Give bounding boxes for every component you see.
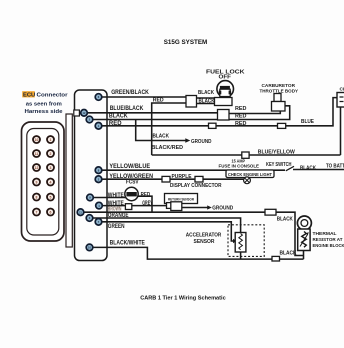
wire RED pin4 to choke (BLUE at right)	[99, 98, 338, 126]
svg-text:3: 3	[50, 166, 52, 170]
ground arrow	[185, 138, 190, 142]
inline connector under FCSV	[125, 204, 131, 210]
check engine light box	[226, 170, 274, 178]
svg-text:5: 5	[50, 195, 52, 199]
lamp symbol	[244, 177, 251, 184]
svg-text:CARBURETOR: CARBURETOR	[262, 83, 296, 89]
svg-text:BLACK: BLACK	[109, 114, 128, 120]
svg-text:RED: RED	[141, 192, 151, 198]
wire YELLOW/GREEN pin6 / PURPLE to check engine light	[99, 178, 244, 180]
svg-text:RED: RED	[235, 121, 247, 127]
thermal resistor at engine block	[297, 216, 344, 259]
svg-text:BLUE/YELLOW: BLUE/YELLOW	[258, 150, 296, 156]
wire BROWN pin9 to thermal resistor	[81, 212, 304, 255]
pin 5	[86, 116, 93, 123]
wire YELLOW/BLUE pin5 to key switch	[99, 169, 286, 171]
inline connector on red/blue wire	[278, 123, 286, 128]
inline connector	[265, 209, 276, 215]
svg-text:RETURN SENSOR: RETURN SENSOR	[168, 197, 194, 201]
pin 7	[95, 219, 102, 226]
15 amp fuse	[242, 152, 249, 158]
svg-text:BLACK/RED: BLACK/RED	[152, 145, 184, 151]
svg-text:S15G SYSTEM: S15G SYSTEM	[164, 39, 208, 46]
black wires to fuel lock	[197, 97, 215, 99]
plug connector	[167, 203, 172, 209]
svg-text:SENSOR: SENSOR	[194, 239, 215, 245]
svg-text:GROUND: GROUND	[191, 139, 212, 145]
svg-text:CARB 1 Tier 1 Wiring Schematic: CARB 1 Tier 1 Wiring Schematic	[140, 296, 226, 302]
FCSV solenoid	[125, 180, 150, 201]
ground arrow	[207, 205, 212, 209]
wire GREEN pin11 to pot wiper	[99, 222, 234, 241]
svg-text:RED: RED	[153, 98, 164, 104]
svg-text:YELLOW/BLUE: YELLOW/BLUE	[109, 164, 150, 170]
svg-text:BLACK/WHITE: BLACK/WHITE	[110, 241, 145, 247]
choke bottom feed	[340, 107, 342, 155]
svg-text:BLACK: BLACK	[199, 99, 215, 105]
svg-text:10: 10	[35, 138, 39, 142]
wire BLUE/BLACK pin2	[77, 112, 218, 114]
svg-text:4: 4	[50, 180, 52, 184]
svg-text:ACCELERATOR: ACCELERATOR	[186, 232, 222, 238]
svg-text:DISPLAY CONNECTOR: DISPLAY CONNECTOR	[170, 183, 222, 189]
svg-text:7: 7	[36, 210, 38, 214]
svg-text:1: 1	[50, 138, 52, 142]
wire WHITE/GREY pin8	[99, 205, 167, 207]
svg-text:OFF: OFF	[219, 75, 232, 81]
pin 4	[96, 202, 103, 209]
dashed box	[228, 225, 264, 257]
pin 10	[86, 244, 93, 251]
svg-text:12: 12	[35, 166, 39, 170]
inline connector on red wire	[209, 123, 217, 128]
svg-text:THERMAL: THERMAL	[313, 231, 337, 237]
svg-text:GREY: GREY	[142, 201, 152, 207]
svg-text:BLACK: BLACK	[277, 216, 293, 222]
black branch to ground	[136, 120, 186, 141]
svg-text:ENGINE BLOCK: ENGINE BLOCK	[313, 243, 344, 249]
svg-text:KEY SWITCH: KEY SWITCH	[266, 162, 292, 168]
red feed stub + vertical to fuse wire	[152, 103, 186, 155]
svg-text:GROUND: GROUND	[212, 206, 233, 212]
svg-text:RED: RED	[235, 106, 247, 112]
svg-text:6: 6	[50, 210, 52, 214]
connector flange strip	[66, 114, 72, 247]
choke component (clipped at right edge)	[337, 87, 344, 107]
svg-text:CH: CH	[340, 87, 344, 93]
svg-text:RED: RED	[109, 121, 122, 127]
wire to ground	[182, 207, 208, 209]
svg-text:as seen from: as seen from	[26, 101, 62, 107]
FCSV red return	[138, 196, 152, 212]
svg-text:FCSV: FCSV	[126, 180, 139, 186]
svg-text:BLACK: BLACK	[300, 165, 316, 171]
svg-text:9: 9	[36, 180, 38, 184]
blue/black continue to throttle body	[229, 111, 280, 114]
inline connector box1	[186, 96, 197, 108]
svg-text:8: 8	[36, 195, 38, 199]
svg-text:11: 11	[35, 152, 39, 156]
svg-text:GREEN: GREEN	[108, 224, 125, 230]
ECU connector housing (as seen from harness side)	[22, 122, 65, 241]
svg-text:BLACK: BLACK	[198, 90, 214, 96]
inline connector	[272, 256, 280, 261]
ECU schematic body box	[75, 90, 108, 261]
svg-text:FUSE IN CONSOLE: FUSE IN CONSOLE	[219, 163, 260, 169]
svg-text:ECU: ECU	[23, 93, 35, 99]
svg-text:BROWN: BROWN	[108, 207, 122, 213]
svg-text:ORANGE: ORANGE	[108, 213, 129, 219]
wiper arrow	[233, 239, 237, 243]
svg-text:2: 2	[50, 152, 52, 156]
wire WHITE pin7 to FCSV	[90, 197, 127, 199]
svg-text:WHITE: WHITE	[108, 193, 124, 199]
svg-text:RED: RED	[235, 114, 247, 120]
inline connector box2 on blue/black wire	[218, 110, 230, 121]
pin 12	[81, 110, 88, 117]
svg-text:GREEN/BLACK: GREEN/BLACK	[111, 90, 149, 96]
carburetor throttle body	[260, 83, 299, 111]
pin 1	[95, 123, 102, 130]
svg-text:PURPLE: PURPLE	[172, 174, 192, 180]
svg-text:CHECK ENGINE LIGHT: CHECK ENGINE LIGHT	[228, 172, 272, 178]
wire GREEN/BLACK pin1	[99, 96, 187, 98]
svg-text:BLACK: BLACK	[153, 134, 170, 140]
svg-text:BLUE/BLACK: BLUE/BLACK	[110, 106, 144, 112]
potentiometer	[235, 233, 246, 253]
connector terminal on ECU edge	[74, 110, 80, 116]
pin 9	[87, 194, 94, 201]
fuel lock OFF solenoid	[206, 69, 245, 105]
svg-text:Connector: Connector	[37, 93, 69, 99]
display connector boxes	[162, 176, 170, 182]
svg-text:BLUE: BLUE	[301, 119, 314, 125]
pin 3	[86, 215, 93, 222]
pin 2	[95, 176, 102, 183]
pin 6	[95, 94, 102, 101]
wire BLACK/WHITE pin12	[90, 247, 304, 259]
wire ORANGE pin10 to pot top	[90, 218, 241, 233]
pin 8	[95, 167, 102, 174]
pot bottom lead	[240, 252, 242, 259]
blue/yellow fuse wire	[152, 154, 341, 156]
return sensor box	[165, 194, 198, 204]
svg-text:RESISTOR AT: RESISTOR AT	[313, 237, 343, 243]
svg-text:TO BATT: TO BATT	[326, 163, 344, 169]
wire BLACK pin3 to throttle body loop	[90, 106, 290, 120]
pin 11	[77, 209, 84, 216]
ECU connector label	[22, 91, 68, 115]
svg-text:BLACK: BLACK	[280, 251, 297, 257]
connector pins (12)	[33, 136, 54, 216]
svg-text:Harness side: Harness side	[25, 109, 64, 115]
